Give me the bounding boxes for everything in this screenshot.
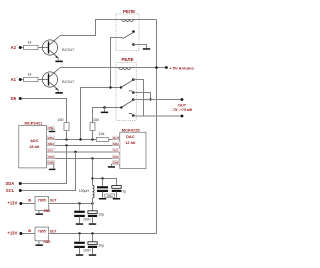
wire VIN+ 10k line — [47, 139, 97, 141]
relay K2 armA — [121, 80, 132, 87]
resistor R5 10k — [96, 132, 120, 141]
pin SCL U1 — [47, 149, 55, 153]
relay K2 contact B2 lead — [129, 112, 132, 114]
ground comB — [101, 112, 108, 114]
svg-text:7805: 7805 — [38, 199, 46, 203]
relay K2 comB pivot — [120, 106, 122, 108]
capacitor C5 100n — [97, 179, 108, 198]
junction VCC riser — [91, 157, 93, 159]
svg-text:BC547: BC547 — [62, 47, 75, 52]
relay K2 comA pivot — [120, 86, 122, 88]
node +13V input 2 — [7, 231, 22, 236]
svg-text:SCL: SCL — [6, 188, 15, 193]
wire A2 to R1 — [22, 47, 24, 49]
wire VCC bus — [47, 158, 120, 160]
junction C1 — [78, 202, 80, 204]
wire contact B2 to OUT lower line — [133, 115, 182, 117]
pin VIN- U1 — [47, 126, 55, 130]
svg-text:D8: D8 — [11, 96, 17, 101]
junction C3 — [78, 232, 80, 234]
wire R2 to Q2 base — [38, 79, 48, 81]
junction +5V rail coil — [155, 66, 158, 69]
wire relay K2 comA to VIN+ bus — [81, 88, 122, 140]
regulator U4 7805 — [28, 227, 56, 241]
svg-text:+13V: +13V — [7, 201, 17, 206]
svg-text:VIN+: VIN+ — [48, 136, 55, 140]
capacitor C2 10u — [88, 204, 104, 224]
wire Q2 emitter down — [57, 90, 59, 92]
svg-text:GND: GND — [48, 161, 56, 165]
ground C2 — [89, 223, 96, 225]
+5V rail vertical — [156, 20, 158, 234]
svg-text:10k: 10k — [99, 132, 105, 136]
node +13V input 1 — [7, 201, 22, 206]
node SCL — [6, 188, 22, 193]
junction SCL leg — [74, 151, 76, 153]
svg-text:MCP3421: MCP3421 — [25, 121, 44, 126]
junction C5 — [101, 177, 103, 179]
node OUT lower — [181, 115, 184, 118]
svg-text:100n: 100n — [83, 218, 91, 222]
svg-text:ADC: ADC — [30, 138, 39, 143]
svg-text:VCC: VCC — [48, 155, 55, 159]
wire contact B1 to OUT terminal — [133, 99, 182, 101]
svg-text:OUT: OUT — [50, 199, 57, 203]
svg-text:DAC: DAC — [126, 134, 135, 139]
svg-text:MCP4725: MCP4725 — [122, 127, 141, 132]
svg-text:150: 150 — [58, 118, 64, 122]
ground C4 — [89, 254, 96, 256]
svg-text:47µ: 47µ — [120, 189, 126, 193]
relay K1 contact NO — [132, 43, 135, 46]
wire SDA terminal — [22, 146, 67, 184]
ground U3 — [36, 209, 52, 215]
wire GND pin U2 — [112, 163, 120, 165]
wire Q1 emitter down — [57, 58, 59, 61]
capacitor C1 100n — [74, 204, 90, 224]
svg-text:SDA: SDA — [48, 142, 55, 146]
svg-text:VCC: VCC — [113, 155, 120, 159]
relay K2 armB — [121, 100, 132, 107]
wire Q1 collector to relay K1 coil and +5V rail — [60, 20, 157, 36]
svg-text:BC547: BC547 — [62, 79, 75, 84]
wire K1 NO contact to ground — [134, 45, 147, 49]
relay K1 dashed box — [116, 14, 139, 51]
wire +13V to U4 — [22, 233, 35, 235]
node OUT upper — [181, 98, 184, 101]
junction SDA leg — [65, 144, 67, 146]
wire GND pin U1 — [47, 163, 54, 165]
wire SCL bus — [47, 151, 120, 153]
capacitor C4 10u — [88, 234, 104, 255]
ground Q2 emitter — [55, 92, 62, 94]
inductor L1 100uH — [79, 185, 94, 203]
svg-text:100µH: 100µH — [79, 189, 90, 193]
svg-text:10µ: 10µ — [98, 213, 104, 217]
svg-text:18 bit: 18 bit — [29, 144, 40, 149]
pin SDA U1 — [47, 142, 55, 146]
svg-text:OUT: OUT — [50, 229, 57, 233]
node A1 — [11, 77, 22, 82]
relay K2 contact B1 — [132, 98, 135, 101]
relay K2 label — [121, 57, 133, 62]
svg-text:A1: A1 — [11, 77, 17, 82]
resistor R1 1k — [24, 40, 39, 49]
label OUT — [172, 102, 192, 112]
svg-text:1k: 1k — [27, 40, 31, 44]
capacitor C6 47u — [112, 186, 126, 198]
svg-text:IN: IN — [28, 229, 32, 233]
node A2 — [11, 45, 22, 50]
wire filter line — [93, 179, 117, 186]
relay K1 contact NC — [132, 30, 135, 33]
svg-text:РЕЛЕ: РЕЛЕ — [121, 57, 133, 62]
transistor Q2 BC547 — [42, 68, 75, 90]
relay K2 coil — [119, 68, 131, 70]
svg-text:100n: 100n — [83, 249, 91, 253]
svg-text:GND: GND — [113, 161, 121, 165]
pin VCC U2 — [112, 155, 120, 159]
node SDA — [5, 181, 21, 186]
wire +13V to U3 — [22, 203, 35, 205]
svg-text:A2: A2 — [11, 45, 17, 50]
svg-text:GND: GND — [43, 209, 51, 213]
node +5V Arduino — [165, 65, 194, 70]
junction C2 and L1 riser — [91, 202, 93, 204]
ground C1 — [76, 223, 83, 225]
wire U4 OUT line to +5V rail — [49, 233, 157, 235]
relay K2 contact A2 lead — [129, 90, 132, 92]
wire A1 to R2 — [22, 79, 24, 81]
junction filter node — [91, 177, 93, 179]
svg-text:12 bit: 12 bit — [125, 140, 136, 145]
junction A2 drop on OUT line — [149, 98, 151, 100]
wire U3 OUT line — [49, 203, 93, 205]
ground VIN- — [49, 130, 56, 133]
wire R4 top to comB — [93, 108, 122, 123]
svg-text:-75...+75 мВ: -75...+75 мВ — [172, 108, 192, 112]
node D8 — [11, 96, 22, 101]
svg-text:OUT: OUT — [178, 102, 187, 107]
svg-text:1k: 1k — [27, 72, 31, 76]
pin OUT U2 — [112, 136, 120, 140]
pin GND U1 — [47, 161, 55, 165]
svg-text:SCL: SCL — [48, 149, 54, 153]
relay K2 contact A2 — [132, 91, 135, 94]
relay K2 dashed box — [116, 63, 136, 121]
resistor R4 150 — [90, 118, 99, 140]
wire contact A1 right and down — [133, 80, 143, 117]
svg-text:100n: 100n — [106, 194, 113, 198]
ground K1 contact — [143, 48, 150, 50]
relay K2 contact A1 — [132, 78, 135, 81]
capacitor C3 100n — [74, 234, 90, 255]
junction C4 — [91, 232, 93, 234]
svg-text:GND: GND — [43, 240, 51, 244]
junction VIN+ relay leg — [79, 138, 81, 140]
relay K2 contact B2 — [132, 114, 135, 117]
ground C5 — [99, 198, 106, 200]
wire contact A2 right and down — [133, 93, 150, 100]
resistor R2 1k — [24, 72, 39, 81]
ground C3 — [76, 254, 83, 256]
pin SCL U2 — [112, 149, 120, 153]
relay K1 coil — [122, 20, 134, 22]
transistor Q1 BC547 — [42, 36, 75, 58]
ground Q1 emitter — [55, 61, 62, 63]
svg-text:РЕЛЕ: РЕЛЕ — [123, 9, 135, 14]
svg-text:10µ: 10µ — [98, 244, 104, 248]
pin GND U2 — [112, 161, 120, 165]
wire SDA bus — [47, 145, 120, 147]
junction K1 com — [109, 86, 111, 88]
ground U2 GND — [108, 164, 115, 168]
svg-text:VIN-: VIN- — [48, 126, 54, 130]
wire VCC riser — [92, 159, 94, 186]
svg-text:+ 5V Arduino: + 5V Arduino — [169, 65, 194, 70]
svg-text:SDA: SDA — [5, 181, 14, 186]
svg-text:IN: IN — [28, 198, 32, 202]
svg-text:+13V: +13V — [7, 231, 17, 236]
IC U2 MCP4725 label — [122, 127, 141, 132]
relay K1 switch arm — [123, 33, 133, 39]
wire K1 common from relay K2 node — [111, 38, 123, 88]
ground C6 — [113, 198, 120, 200]
junction ground comB — [103, 106, 106, 109]
pin VCC U1 — [47, 155, 55, 159]
IC U2 DAC box — [120, 132, 146, 168]
svg-text:7805: 7805 — [38, 229, 46, 233]
IC U1 MCP3421 label — [25, 121, 44, 126]
junction VIN+ R4 10k — [91, 138, 93, 140]
label C5 100n — [105, 194, 115, 198]
wire Q2 collector to relay K2 coil and +5V node — [60, 67, 167, 69]
junction VIN+ R3 — [65, 138, 67, 140]
svg-text:SCL: SCL — [113, 149, 119, 153]
svg-text:150: 150 — [93, 118, 99, 122]
wire D8 to R3 — [22, 99, 67, 123]
wire SCL terminal — [22, 152, 76, 191]
svg-text:SDA: SDA — [113, 142, 120, 146]
ground comB stub — [104, 108, 106, 112]
relay K1 label — [123, 9, 135, 14]
wire R1 to Q1 base — [38, 47, 48, 49]
svg-text:OUT: OUT — [113, 136, 120, 140]
pin SDA U2 — [112, 142, 120, 146]
IC U1 ADC box — [19, 126, 47, 168]
ground U1 GND — [49, 164, 56, 170]
resistor R3 150 — [58, 118, 70, 140]
regulator U3 7805 — [28, 197, 56, 211]
pin VIN+ U1 — [47, 136, 55, 140]
ground U4 — [36, 240, 52, 246]
